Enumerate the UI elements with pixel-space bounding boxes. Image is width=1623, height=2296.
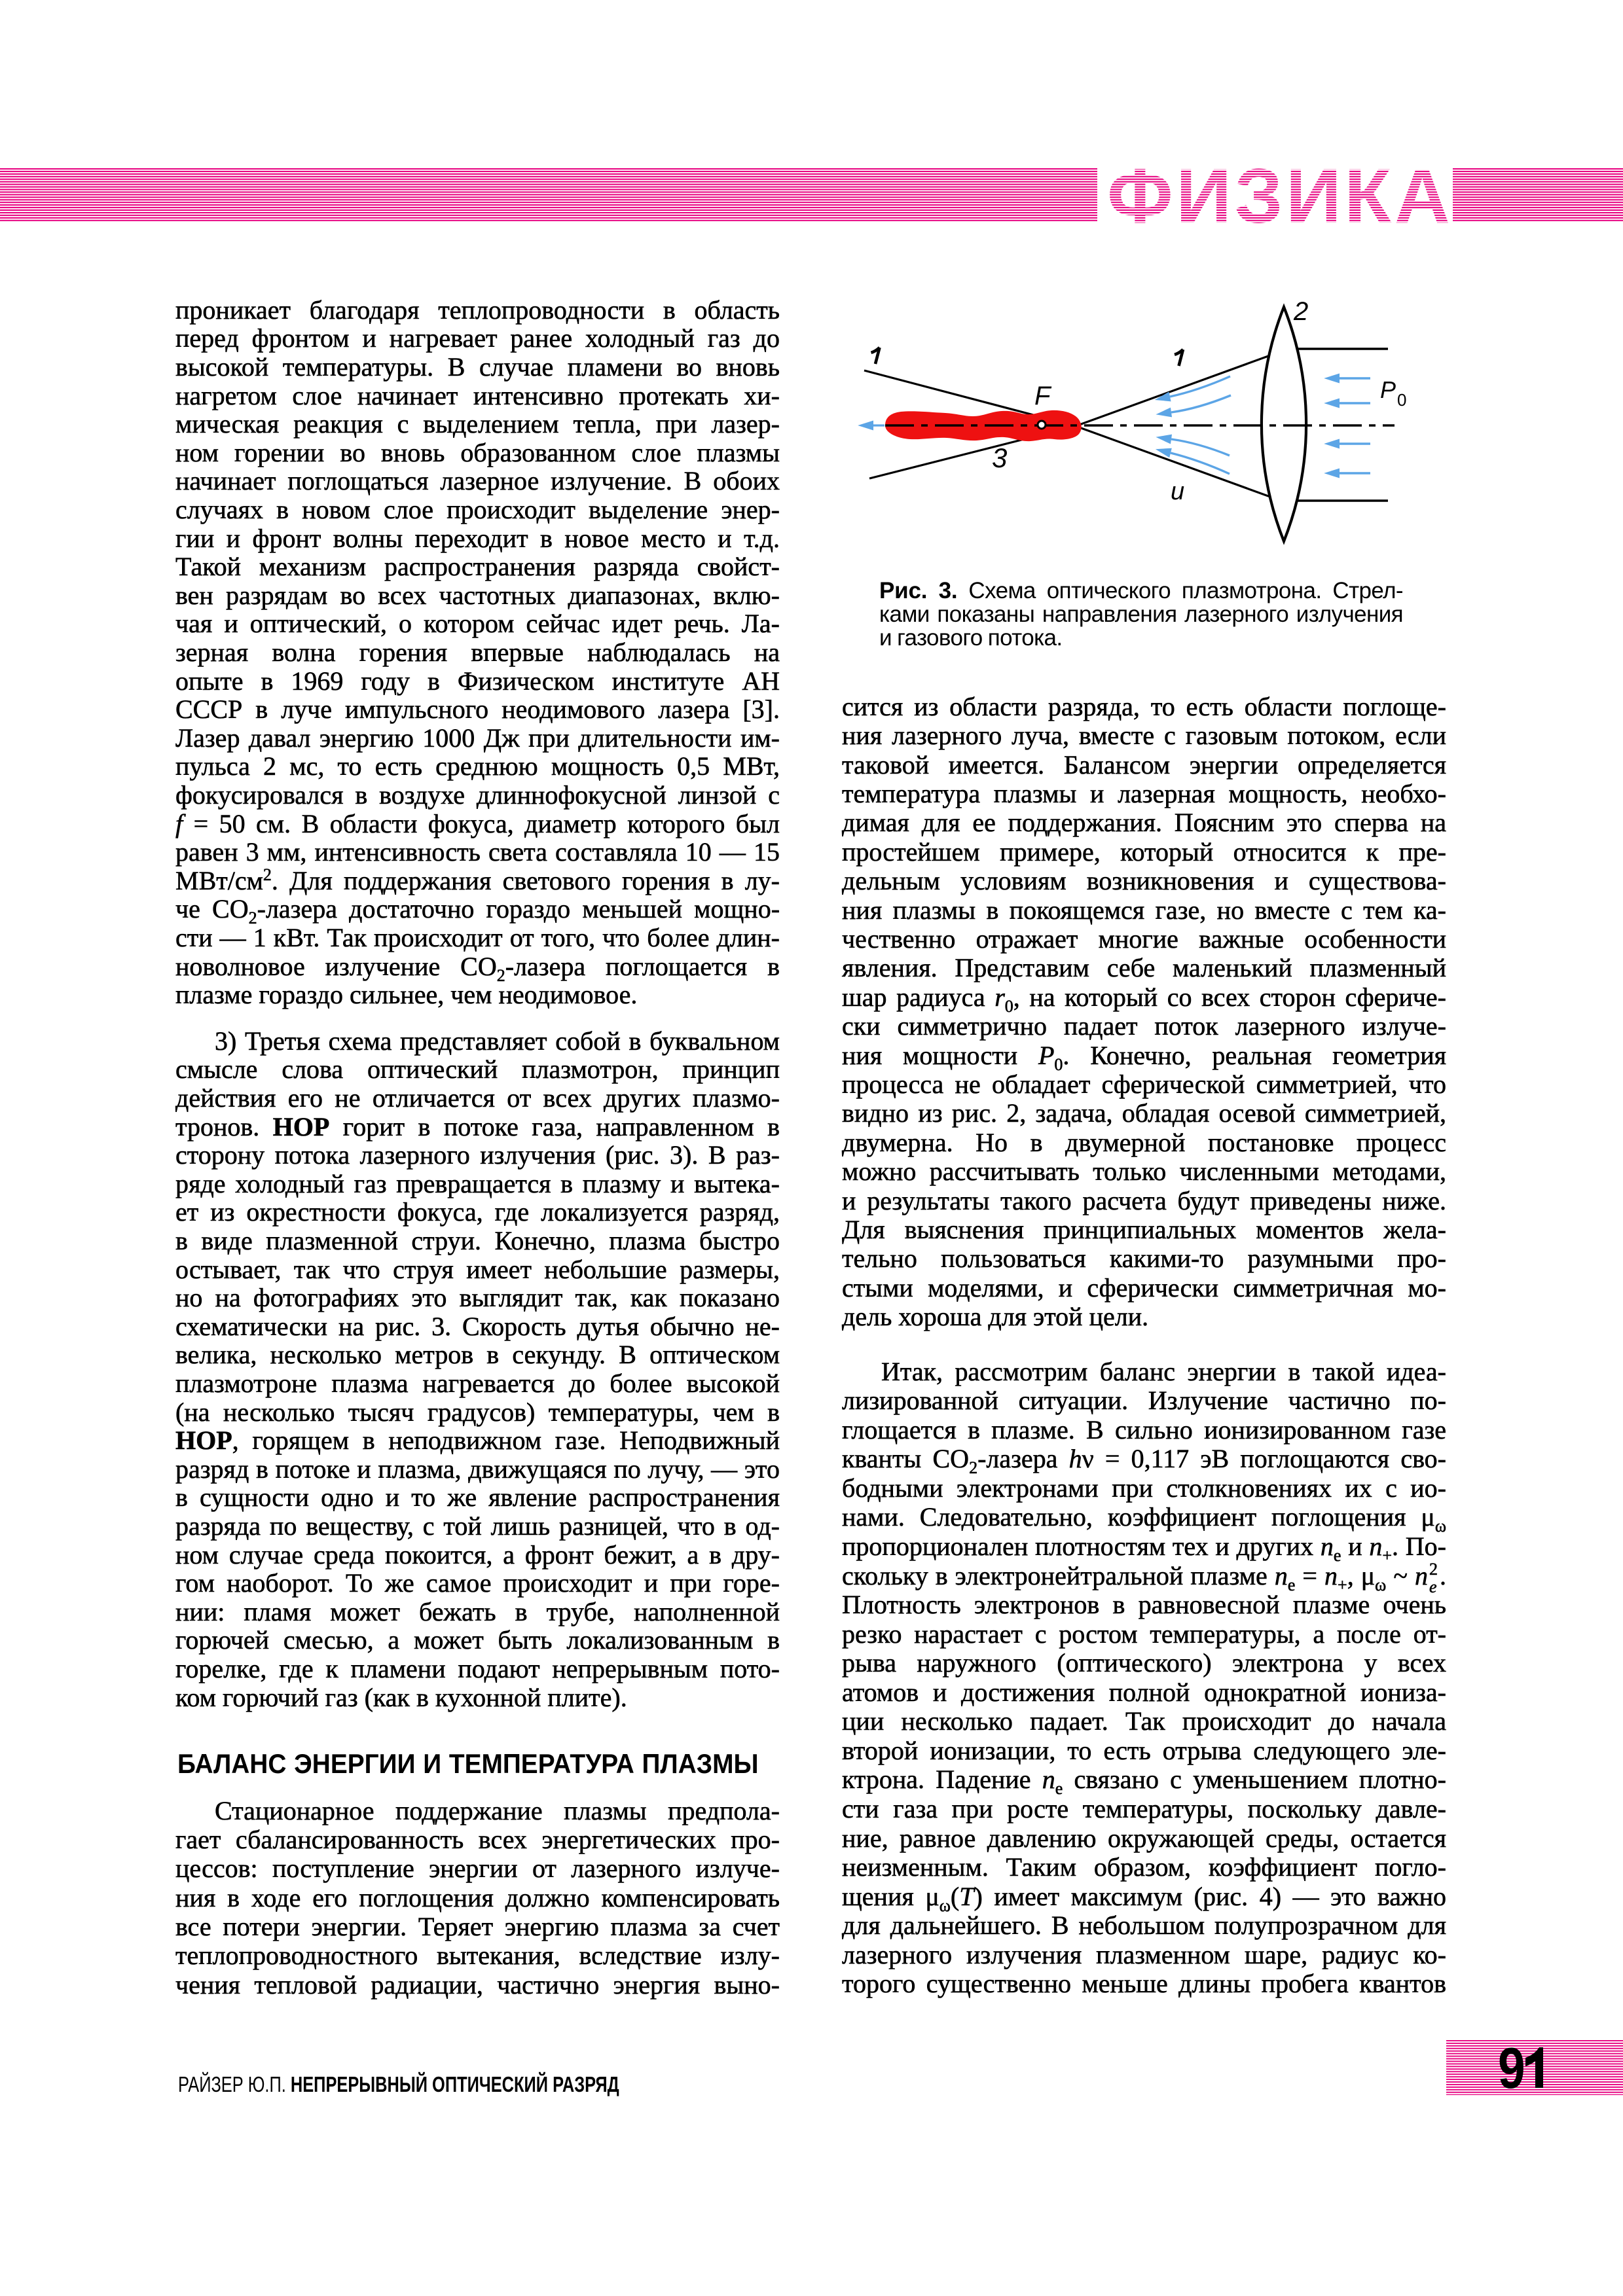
svg-text:0: 0 [1397,390,1406,410]
svg-text:u: u [1171,478,1184,505]
svg-text:2: 2 [1293,297,1308,326]
svg-text:P: P [1380,376,1396,403]
svg-text:F: F [1034,382,1052,410]
svg-text:ФИЗИКА: ФИЗИКА [1107,153,1450,236]
svg-text:3: 3 [992,442,1007,473]
svg-text:9: 9 [1498,2040,1525,2095]
